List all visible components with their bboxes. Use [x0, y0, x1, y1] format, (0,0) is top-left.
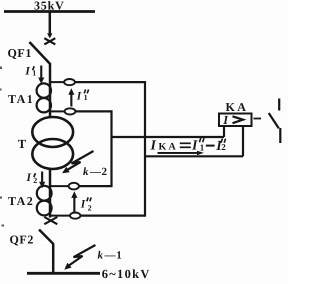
- svg-text:QF2: QF2: [10, 232, 34, 246]
- svg-text:k: k: [98, 250, 104, 262]
- svg-text:2: 2: [88, 204, 92, 213]
- svg-text:1: 1: [32, 69, 36, 78]
- svg-text:—1: —1: [104, 250, 123, 262]
- svg-text:TA1: TA1: [8, 92, 34, 106]
- svg-text:6~10kV: 6~10kV: [102, 267, 151, 281]
- svg-text:I: I: [76, 90, 82, 102]
- svg-text:I: I: [26, 172, 32, 184]
- svg-text:2: 2: [221, 142, 226, 152]
- svg-text:QF1: QF1: [8, 46, 32, 60]
- svg-text:1: 1: [200, 142, 205, 152]
- svg-text:I: I: [24, 66, 30, 78]
- svg-text:I: I: [150, 139, 157, 154]
- svg-text:T: T: [18, 137, 27, 151]
- svg-text:I: I: [191, 139, 198, 154]
- svg-text:1: 1: [84, 93, 88, 102]
- svg-text:KA: KA: [226, 100, 249, 114]
- svg-text:2: 2: [33, 176, 37, 185]
- svg-text:KA: KA: [159, 141, 178, 152]
- svg-text:I: I: [80, 199, 86, 211]
- svg-text:TA2: TA2: [8, 194, 34, 208]
- svg-text:k: k: [83, 166, 89, 178]
- svg-text:—2: —2: [89, 166, 108, 178]
- svg-text:35kV: 35kV: [34, 0, 65, 13]
